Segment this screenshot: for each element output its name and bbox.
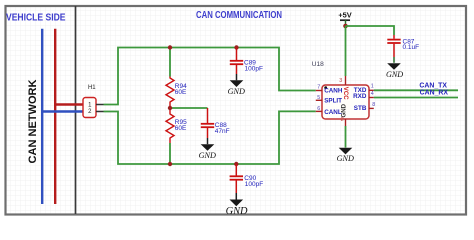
resistor R95 60E bbox=[166, 108, 174, 143]
svg-text:GND: GND bbox=[228, 87, 245, 96]
junction dot rail/R94 bbox=[168, 45, 172, 49]
svg-text:8: 8 bbox=[372, 102, 375, 108]
svg-text:4: 4 bbox=[371, 91, 374, 97]
U18 pin 4 RXD stub bbox=[369, 97, 374, 99]
svg-text:6: 6 bbox=[317, 106, 320, 112]
bus CANL line (blue vertical) bbox=[41, 29, 43, 204]
section divider line bbox=[75, 6, 77, 214]
junction dot rail/R95 bottom bbox=[168, 162, 172, 166]
ground below C89 bbox=[228, 80, 245, 96]
svg-text:GND: GND bbox=[199, 151, 216, 160]
svg-text:1: 1 bbox=[371, 83, 374, 89]
wire H1 pin2 to bottom rail to U18 CANL bbox=[104, 111, 316, 164]
svg-text:GND: GND bbox=[226, 206, 248, 217]
U18 pin 5 SPLIT stub (no connect) bbox=[316, 99, 322, 101]
svg-text:VCC: VCC bbox=[342, 87, 349, 100]
ground below C90 bbox=[226, 200, 248, 218]
ground below U18 bbox=[337, 148, 354, 163]
svg-text:VEHICLE SIDE: VEHICLE SIDE bbox=[6, 13, 66, 24]
U18 pin 2 GND stub bbox=[345, 119, 347, 126]
svg-text:U18: U18 bbox=[312, 61, 324, 68]
wire H1 pin1 to top rail to U18 CANH bbox=[104, 48, 316, 105]
svg-text:+5V: +5V bbox=[338, 10, 351, 19]
U18 pin 3 VCC stub bbox=[345, 76, 347, 85]
bus CANH line (red vertical) bbox=[54, 29, 56, 204]
junction dot R94/R95 bbox=[168, 106, 172, 110]
svg-text:2: 2 bbox=[341, 117, 344, 123]
svg-text:60E: 60E bbox=[175, 89, 187, 96]
ground below C88 bbox=[199, 144, 216, 160]
U18 pin 6 CANL stub bbox=[316, 110, 322, 112]
capacitor C89 100pF bbox=[230, 48, 263, 81]
svg-text:3: 3 bbox=[339, 78, 342, 84]
svg-text:60E: 60E bbox=[175, 125, 187, 132]
capacitor C87 0.1uF bbox=[387, 35, 419, 63]
svg-text:H1: H1 bbox=[88, 85, 96, 91]
U18 pin 7 CANH stub bbox=[316, 90, 322, 92]
capacitor C90 100pF bbox=[230, 164, 264, 200]
svg-text:100pF: 100pF bbox=[245, 181, 263, 188]
ground below C87 bbox=[386, 63, 403, 79]
svg-text:CAN NETWORK: CAN NETWORK bbox=[27, 79, 39, 164]
+5V power symbol bbox=[338, 10, 351, 26]
H1 pin 2 stub bbox=[96, 111, 104, 113]
svg-text:SPLIT: SPLIT bbox=[324, 98, 342, 105]
wire rail to R94 bbox=[169, 48, 171, 77]
svg-text:CAN COMMUNICATION: CAN COMMUNICATION bbox=[196, 10, 282, 21]
svg-text:100pF: 100pF bbox=[245, 65, 263, 72]
wire R divider middle to C88 bbox=[170, 107, 208, 109]
svg-text:CAN_RX: CAN_RX bbox=[420, 90, 449, 97]
svg-text:7: 7 bbox=[317, 84, 320, 90]
U18 pin-1 dot bbox=[324, 86, 327, 89]
junction dot rail/C89 bbox=[234, 45, 238, 49]
U18 pin 1 TXD stub bbox=[369, 89, 374, 91]
capacitor C88 47nF bbox=[201, 108, 230, 144]
U18 body bbox=[322, 85, 369, 119]
wire +5V to C87 bbox=[346, 26, 395, 35]
svg-text:RXD: RXD bbox=[353, 93, 367, 100]
U18 pin 8 STB stub (no connect) bbox=[369, 107, 374, 109]
resistor R94 60E bbox=[166, 77, 174, 109]
wire RXD to CAN_RX bbox=[374, 97, 458, 99]
svg-text:GND: GND bbox=[340, 103, 347, 117]
junction dot +5V bbox=[343, 24, 348, 29]
connector H1 body bbox=[83, 85, 104, 118]
wire +5V down to U18 VCC bbox=[345, 26, 347, 76]
IC U18 CAN transceiver bbox=[312, 61, 369, 119]
wire red bus to H1 pin1 bbox=[54, 103, 84, 105]
svg-text:47nF: 47nF bbox=[215, 128, 230, 135]
junction dot rail/C90 bbox=[234, 162, 238, 166]
svg-text:GND: GND bbox=[386, 70, 403, 79]
svg-text:0.1uF: 0.1uF bbox=[403, 44, 420, 51]
wire TXD to CAN_TX bbox=[374, 89, 458, 91]
svg-text:CANL: CANL bbox=[324, 109, 342, 116]
svg-text:GND: GND bbox=[337, 154, 354, 163]
svg-text:STB: STB bbox=[354, 105, 367, 112]
wire R95 to bottom rail bbox=[169, 143, 171, 164]
H1 pin 1 stub bbox=[96, 104, 104, 106]
wire blue bus to H1 pin2 bbox=[41, 110, 84, 112]
wire U18 GND to ground bbox=[345, 126, 347, 148]
svg-text:CANH: CANH bbox=[324, 88, 343, 95]
svg-text:5: 5 bbox=[317, 95, 320, 101]
